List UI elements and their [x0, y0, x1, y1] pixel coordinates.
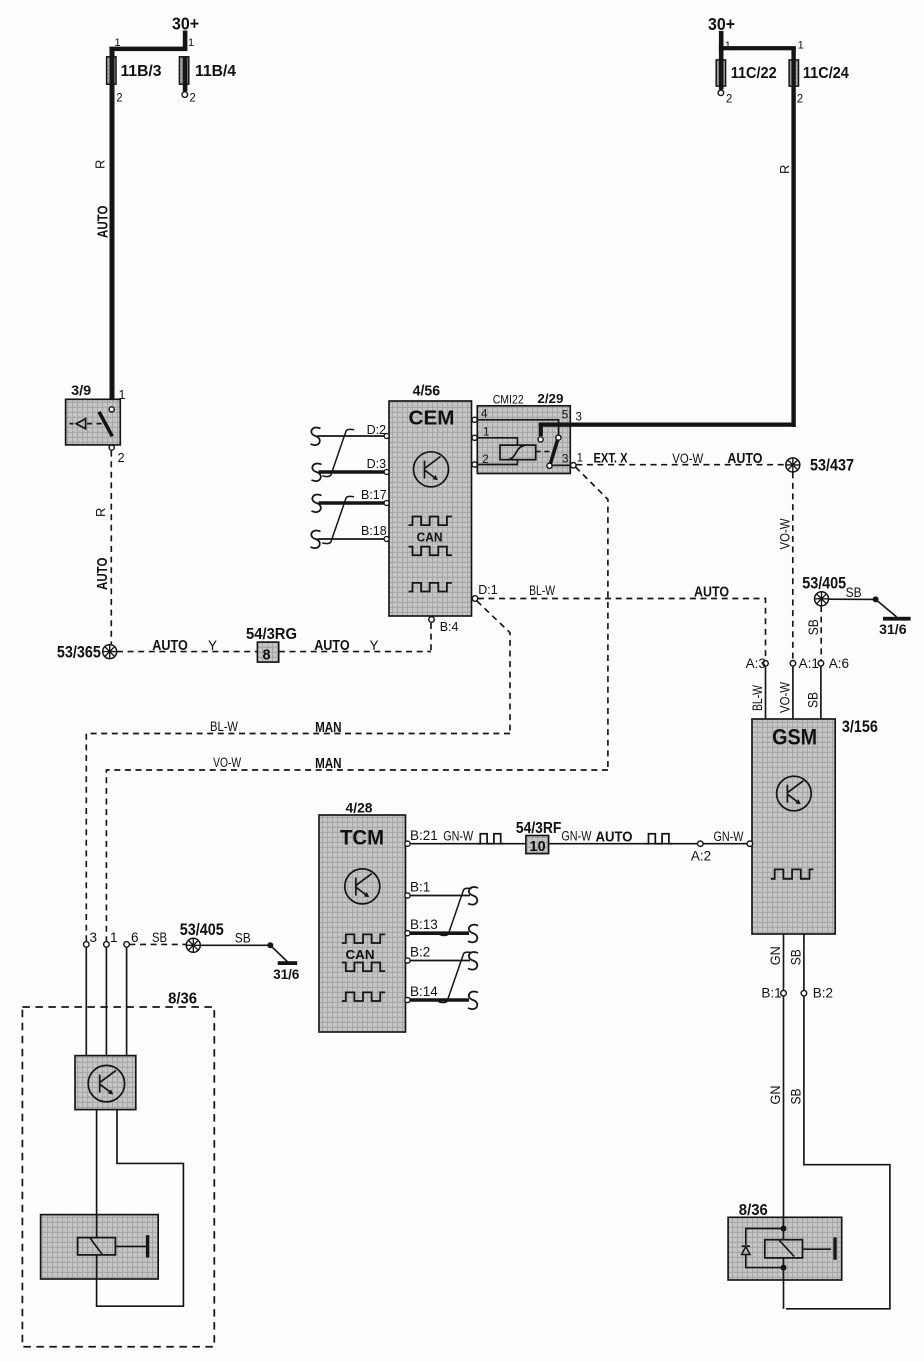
- svg-text:8/36: 8/36: [168, 991, 197, 1008]
- relay pin 2 and coil wire: [472, 454, 517, 467]
- square wave on wire: [477, 834, 503, 844]
- svg-text:SB: SB: [789, 1089, 804, 1105]
- wire GN-W AUTO (54/3RF to GSM A:2): [549, 829, 698, 846]
- svg-text:54/3RG: 54/3RG: [246, 626, 297, 643]
- svg-text:B:17: B:17: [361, 488, 387, 502]
- pin D:1 (CEM right): [471, 583, 498, 601]
- svg-text:AUTO: AUTO: [152, 638, 188, 654]
- motor/actuator 8/36 (left): [41, 1215, 159, 1279]
- wire through coil (B:1 line inside relay): [783, 1217, 785, 1309]
- svg-text:3: 3: [90, 930, 98, 945]
- transistor symbol (GSM): [777, 776, 812, 811]
- svg-text:1: 1: [188, 37, 194, 49]
- svg-text:BL-W: BL-W: [529, 583, 555, 598]
- svg-text:Y: Y: [370, 638, 379, 653]
- relay coil: [500, 445, 552, 460]
- svg-text:8/36: 8/36: [739, 1202, 768, 1219]
- svg-text:SB: SB: [235, 931, 251, 946]
- svg-text:D:2: D:2: [367, 423, 387, 437]
- wire (transistor box right output loop): [97, 1110, 184, 1307]
- pin A:2 (GSM left): [691, 829, 753, 864]
- relay 8/36 (right): [728, 1202, 842, 1280]
- module TCM 4/28: [319, 801, 406, 1033]
- svg-text:R: R: [777, 165, 792, 174]
- pin D:3 (thick wire): [312, 457, 390, 481]
- svg-text:53/405: 53/405: [802, 575, 846, 593]
- svg-text:R: R: [93, 160, 108, 169]
- svg-text:1: 1: [725, 40, 731, 52]
- fuse 11B/3: [107, 57, 162, 84]
- svg-text:31/6: 31/6: [273, 966, 299, 982]
- wire SB (GSM B:2 down and around): [786, 996, 890, 1309]
- svg-text:AUTO: AUTO: [596, 829, 633, 846]
- svg-text:B:14: B:14: [410, 984, 438, 999]
- square wave symbol (CEM bottom): [409, 583, 452, 592]
- connector 54/3RF pin 10: [516, 820, 562, 855]
- relay 30-feed thick wire and terminal 5: [538, 409, 794, 442]
- svg-text:4/56: 4/56: [413, 383, 441, 400]
- pin 1 contact circle: [109, 407, 114, 412]
- svg-text:B:4: B:4: [440, 620, 459, 634]
- svg-text:3: 3: [576, 411, 582, 423]
- twisted pair diagonal (B:2/B:14): [439, 952, 472, 1002]
- pin B:1 (GSM bottom): [761, 934, 786, 1001]
- square wave symbol (TCM top): [342, 934, 385, 943]
- ground bar 31/6 (right): [879, 617, 911, 637]
- svg-text:B:18: B:18: [361, 524, 387, 538]
- svg-text:3: 3: [562, 454, 568, 466]
- ground 53/437: [786, 457, 854, 475]
- junction node (bottom): [781, 1265, 787, 1271]
- control unit box (transistor) in 8/36: [75, 1056, 136, 1110]
- wire Y/AUTO dashed (54/3RG to CEM B:4): [279, 651, 431, 653]
- connector 54/3RG pin 8: [246, 626, 297, 664]
- svg-text:2: 2: [189, 92, 195, 104]
- svg-text:B:13: B:13: [410, 917, 438, 932]
- svg-text:11C/24: 11C/24: [803, 65, 849, 82]
- pin A:3: [746, 656, 769, 719]
- wire R thick vertical 11C/24 down to relay 2/29 feed: [791, 48, 795, 427]
- svg-text:MAN: MAN: [315, 719, 342, 736]
- svg-text:A:2: A:2: [691, 849, 711, 864]
- pin B:1 (TCM): [405, 880, 478, 905]
- module GSM 3/156: [752, 718, 878, 934]
- wire 30+ stub into fuse 11C/22: [719, 31, 724, 59]
- svg-text:VO-W: VO-W: [213, 755, 241, 770]
- svg-text:GSM: GSM: [772, 725, 817, 750]
- svg-text:SB: SB: [789, 949, 804, 965]
- svg-text:AUTO: AUTO: [94, 557, 111, 590]
- svg-text:31/6: 31/6: [879, 622, 907, 637]
- switch arm: [99, 412, 112, 437]
- ground 53/365: [57, 644, 117, 662]
- svg-text:A:1: A:1: [799, 656, 819, 671]
- pin A:1: [778, 656, 819, 719]
- transistor symbol (CEM): [414, 452, 449, 487]
- square wave symbol (CEM top): [409, 517, 452, 526]
- svg-text:CAN: CAN: [346, 948, 375, 962]
- pin B:4 (CEM bottom): [429, 617, 459, 652]
- svg-text:Y: Y: [208, 638, 217, 653]
- svg-text:VO-W: VO-W: [778, 518, 793, 549]
- fuse 11C/22: [716, 58, 777, 106]
- pin B:14 (TCM, thick wire): [405, 984, 478, 1009]
- pin B:18: [311, 524, 390, 548]
- svg-text:AUTO: AUTO: [95, 205, 112, 238]
- pin D:2: [311, 423, 390, 445]
- svg-text:3/9: 3/9: [71, 383, 91, 398]
- relay pin 4: [472, 409, 559, 435]
- twisted pair diagonal (D:2/D:3): [322, 429, 354, 476]
- svg-text:GN: GN: [768, 946, 783, 965]
- pin B:21 and wire to 54/3RF: [405, 828, 526, 846]
- svg-text:CAN: CAN: [417, 531, 443, 545]
- twisted pair diagonal (B:17/B:18): [322, 496, 354, 543]
- svg-text:1: 1: [798, 40, 804, 52]
- svg-text:B:2: B:2: [410, 945, 430, 960]
- relay switch arm: [550, 440, 557, 464]
- svg-text:5: 5: [562, 409, 568, 421]
- junction node (top): [781, 1226, 787, 1232]
- pin B:13 (TCM, thick wire): [405, 917, 478, 942]
- square wave symbol (GSM): [771, 869, 814, 878]
- svg-text:6: 6: [131, 930, 139, 945]
- wire BL-W AUTO dashed (CEM D:1 to GSM A:3): [478, 599, 766, 661]
- wire BL-W MAN dashed horizontal: [86, 734, 510, 942]
- fuse 11C/24: [789, 60, 849, 106]
- wire dashed branch (D:1 down to BL-W MAN line): [477, 601, 510, 734]
- svg-text:A:3: A:3: [746, 656, 766, 671]
- wire (transistor box to motor coil): [96, 1110, 98, 1215]
- svg-text:1: 1: [483, 426, 489, 438]
- wire GN (GSM B:1 down to relay 8/36 right): [768, 996, 784, 1217]
- wire dashed branch (relay pin3 down to VO-W MAN line): [576, 467, 608, 770]
- svg-text:53/365: 53/365: [57, 644, 101, 662]
- svg-text:CMI22: CMI22: [493, 394, 524, 406]
- node pin 3 (to 8/36): [84, 930, 98, 1056]
- svg-text:54/3RF: 54/3RF: [516, 820, 562, 837]
- svg-text:GN: GN: [768, 1086, 783, 1105]
- pin 2 contact circle: [109, 445, 114, 450]
- switch 3/9: [66, 383, 126, 465]
- svg-text:2/29: 2/29: [537, 391, 563, 406]
- svg-text:B:1: B:1: [761, 986, 781, 1001]
- svg-text:53/405: 53/405: [180, 921, 224, 939]
- wire SB solid (53/405 to ground point 31/6 left): [201, 931, 288, 962]
- svg-text:AUTO: AUTO: [314, 638, 350, 654]
- svg-text:SB: SB: [846, 585, 862, 600]
- square wave on wire: [646, 834, 672, 844]
- svg-text:GN-W: GN-W: [443, 829, 473, 844]
- pin B:2 (GSM bottom): [789, 934, 833, 1001]
- square wave symbol (TCM middle, inverted): [342, 963, 385, 972]
- relay 2/29 (CMI22): [477, 391, 570, 474]
- wire EXT. X dashed (relay pin3 to ground 53/437): [576, 464, 785, 466]
- svg-text:2: 2: [726, 94, 732, 106]
- node pin 6 (to 8/36): [124, 930, 139, 1056]
- transistor symbol (TCM): [345, 869, 380, 904]
- svg-text:EXT. X: EXT. X: [594, 451, 628, 466]
- svg-text:SB: SB: [152, 930, 167, 945]
- svg-text:B:21: B:21: [410, 828, 438, 843]
- svg-text:8: 8: [263, 648, 271, 664]
- svg-text:A:6: A:6: [829, 656, 849, 671]
- svg-text:10: 10: [530, 839, 546, 855]
- fuse 11B/4: [179, 57, 236, 105]
- svg-text:B:1: B:1: [410, 880, 430, 895]
- wire SB solid (53/405 to ground point 31/6): [829, 585, 897, 617]
- wire 30+ stub down to junction: [183, 31, 188, 50]
- square wave symbol (CEM middle, inverted): [409, 547, 452, 556]
- svg-text:R: R: [93, 508, 108, 517]
- svg-text:1: 1: [577, 452, 583, 464]
- svg-text:AUTO: AUTO: [694, 584, 729, 601]
- wire R/AUTO dashed from 3/9 pin 2 to ground 53/365: [110, 451, 112, 644]
- diode branch: [742, 1229, 784, 1268]
- svg-text:2: 2: [797, 94, 803, 106]
- actuator triangle symbol: [76, 419, 85, 429]
- svg-text:SB: SB: [806, 692, 821, 708]
- relay pin 1 and coil wire: [472, 426, 517, 445]
- pin B:2 (TCM): [405, 945, 478, 970]
- square wave symbol (TCM bottom): [342, 992, 385, 1001]
- wire SB dashed (pin 6 to ground 53/405 left): [129, 943, 186, 945]
- node pin 1 (to 8/36): [104, 930, 118, 1056]
- node 30+ (right battery feed): [708, 14, 796, 59]
- svg-text:2: 2: [116, 92, 122, 104]
- wire VO-W MAN dashed horizontal: [106, 770, 608, 942]
- wire R thick vertical 11B/3 to switch 3/9: [110, 84, 115, 408]
- svg-text:1: 1: [115, 37, 121, 49]
- svg-text:MAN: MAN: [315, 755, 342, 772]
- unit 8/36 dashed outline (left): [22, 991, 214, 1347]
- svg-text:D:3: D:3: [367, 457, 387, 471]
- svg-text:2: 2: [118, 451, 125, 465]
- svg-text:11B/4: 11B/4: [195, 63, 236, 80]
- svg-text:4: 4: [481, 409, 488, 421]
- pin B:17 (thick wire): [312, 488, 390, 512]
- wire thick horizontal 11B/3 to 11B/4: [109, 47, 187, 52]
- svg-text:3/156: 3/156: [842, 718, 878, 736]
- svg-text:1: 1: [119, 388, 126, 402]
- svg-text:11C/22: 11C/22: [731, 65, 777, 82]
- wire thick vertical into fuse 11B/3: [110, 48, 115, 59]
- module CEM 4/56: [389, 383, 472, 616]
- wire Y/AUTO dashed (53/365 to 54/3RG): [117, 651, 257, 653]
- svg-text:11B/3: 11B/3: [121, 63, 162, 80]
- svg-text:BL-W: BL-W: [210, 719, 238, 734]
- wire VO-W dashed (53/437 down to GSM A:1): [792, 472, 794, 660]
- svg-text:B:2: B:2: [813, 986, 833, 1001]
- svg-text:53/437: 53/437: [810, 457, 854, 475]
- svg-text:GN-W: GN-W: [561, 829, 591, 844]
- svg-text:4/28: 4/28: [346, 801, 373, 816]
- svg-text:SB: SB: [806, 619, 821, 635]
- node 30+ (left battery feed): [109, 14, 199, 59]
- ground 53/405 (left): [180, 921, 224, 952]
- svg-text:CEM: CEM: [409, 408, 455, 430]
- twisted pair diagonal (B:1/B:13): [440, 888, 472, 935]
- svg-text:BL-W: BL-W: [750, 685, 765, 711]
- wire SB dashed (53/405 down to GSM A:6): [820, 606, 822, 660]
- ground bar 31/6 (left): [273, 961, 299, 982]
- svg-text:AUTO: AUTO: [727, 450, 762, 467]
- svg-text:VO-W: VO-W: [778, 682, 793, 713]
- ground 53/405 (right): [802, 575, 846, 606]
- relay contact pin 3: [547, 452, 583, 468]
- svg-text:1: 1: [110, 930, 118, 945]
- svg-text:D:1: D:1: [478, 583, 498, 597]
- relay switch pivot: [556, 435, 561, 440]
- svg-text:TCM: TCM: [340, 827, 384, 850]
- relay coil (right 8/36): [765, 1237, 837, 1259]
- wire thick horizontal 11C/22 to 11C/24: [719, 46, 796, 50]
- svg-text:GN-W: GN-W: [714, 829, 744, 844]
- svg-text:VO-W: VO-W: [672, 451, 703, 466]
- pin A:6: [806, 656, 849, 719]
